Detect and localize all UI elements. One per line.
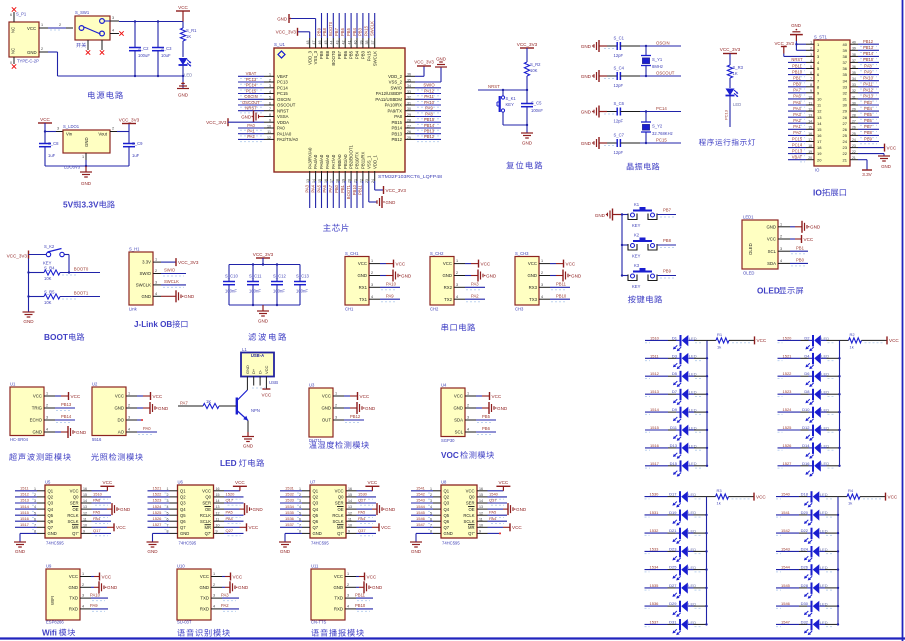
svg-text:SER: SER — [335, 501, 344, 506]
svg-text:1545: 1545 — [781, 583, 791, 588]
svg-text:1511: 1511 — [650, 353, 659, 358]
svg-text:VDDA: VDDA — [277, 120, 289, 125]
svg-text:S_C3: S_C3 — [161, 46, 172, 51]
svg-text:GND: GND — [32, 430, 42, 435]
svg-text:VCC: VCC — [33, 394, 42, 399]
svg-text:PA9: PA9 — [90, 603, 98, 608]
svg-text:S_K1: S_K1 — [506, 96, 517, 101]
svg-text:AO: AO — [118, 430, 125, 435]
svg-text:PC13: PC13 — [724, 109, 729, 120]
svg-text:Q5: Q5 — [444, 513, 450, 518]
svg-text:2: 2 — [41, 47, 43, 51]
svg-text:1513: 1513 — [20, 498, 30, 503]
svg-text:GND: GND — [313, 531, 322, 536]
svg-text:PA1/A0: PA1/A0 — [277, 131, 292, 136]
svg-text:PB8: PB8 — [663, 238, 672, 243]
svg-text:VCC_3V3: VCC_3V3 — [414, 60, 434, 65]
svg-text:S_LDO1: S_LDO1 — [63, 124, 80, 129]
svg-text:1512: 1512 — [650, 371, 660, 376]
svg-text:GND: GND — [372, 585, 383, 590]
svg-text:NC: NC — [11, 27, 16, 33]
svg-text:GND: GND — [258, 319, 269, 324]
svg-text:PC13: PC13 — [792, 148, 803, 153]
svg-text:GND: GND — [571, 273, 582, 278]
svg-text:S_K2: S_K2 — [44, 244, 55, 249]
svg-text:USB-A: USB-A — [251, 353, 264, 358]
svg-text:1537: 1537 — [285, 522, 295, 527]
svg-text:D18: D18 — [801, 492, 809, 497]
svg-text:PB8: PB8 — [322, 27, 327, 36]
svg-text:100nF: 100nF — [249, 289, 261, 294]
svg-text:HC-SR04: HC-SR04 — [10, 437, 29, 442]
svg-text:VCC_3V3: VCC_3V3 — [774, 41, 794, 46]
svg-text:VCC: VCC — [757, 338, 767, 343]
svg-text:18: 18 — [817, 145, 822, 150]
svg-text:2: 2 — [541, 271, 543, 275]
svg-text:PA5: PA5 — [226, 510, 234, 515]
svg-text:OUT: OUT — [322, 418, 331, 423]
svg-text:PA10: PA10 — [863, 76, 873, 81]
svg-text:3: 3 — [780, 247, 782, 251]
svg-text:Q0: Q0 — [469, 495, 475, 500]
svg-text:1k: 1k — [850, 344, 854, 349]
svg-text:Q0: Q0 — [205, 495, 211, 500]
svg-text:Q5: Q5 — [180, 513, 186, 518]
svg-text:GND: GND — [581, 74, 592, 79]
svg-text:1545: 1545 — [416, 510, 426, 515]
svg-text:Q1: Q1 — [313, 489, 319, 494]
svg-text:VCC: VCC — [512, 525, 522, 530]
svg-text:MR: MR — [204, 525, 211, 530]
svg-text:PB5: PB5 — [346, 27, 351, 36]
svg-text:D6: D6 — [804, 371, 810, 376]
svg-text:PA2: PA2 — [247, 134, 255, 139]
svg-text:D11: D11 — [670, 425, 678, 430]
svg-text:PC14: PC14 — [792, 142, 803, 147]
svg-text:16: 16 — [817, 133, 822, 138]
svg-text:U2: U2 — [92, 382, 98, 387]
svg-text:K3: K3 — [634, 263, 640, 268]
svg-text:VSS_1: VSS_1 — [366, 155, 371, 169]
svg-text:Q7': Q7' — [468, 531, 475, 536]
svg-text:VCC: VCC — [69, 574, 78, 579]
svg-text:1531: 1531 — [650, 510, 660, 515]
svg-text:PA9: PA9 — [386, 293, 394, 298]
svg-text:2: 2 — [347, 583, 349, 587]
svg-text:S_C8: S_C8 — [48, 141, 59, 146]
svg-text:VCC: VCC — [492, 394, 502, 399]
svg-text:GND: GND — [810, 225, 821, 230]
svg-text:VCC_3V3: VCC_3V3 — [386, 188, 407, 193]
svg-text:PB7: PB7 — [663, 208, 672, 213]
svg-text:PB7: PB7 — [864, 124, 872, 129]
svg-text:3: 3 — [128, 416, 130, 420]
svg-text:OE: OE — [468, 507, 474, 512]
svg-text:GND: GND — [444, 531, 453, 536]
svg-text:PA5: PA5 — [489, 510, 497, 515]
svg-text:1510: 1510 — [650, 335, 660, 340]
svg-text:PB11: PB11 — [358, 184, 363, 195]
svg-text:12pF: 12pF — [614, 150, 624, 155]
svg-text:PA5: PA5 — [93, 510, 101, 515]
svg-text:CH3: CH3 — [515, 307, 524, 312]
svg-text:VCC_3V3: VCC_3V3 — [276, 30, 297, 35]
svg-text:S_C2: S_C2 — [138, 46, 149, 51]
svg-text:1524: 1524 — [783, 407, 793, 412]
svg-text:PC15: PC15 — [792, 136, 803, 141]
svg-text:1K: 1K — [733, 71, 738, 76]
svg-text:PB4: PB4 — [352, 27, 357, 36]
svg-text:D9: D9 — [672, 407, 678, 412]
svg-text:PB0/A0: PB0/A0 — [337, 154, 342, 169]
svg-text:U11: U11 — [311, 564, 319, 569]
svg-text:VCC: VCC — [360, 394, 370, 399]
svg-text:12pF: 12pF — [614, 119, 624, 124]
svg-text:Q1: Q1 — [180, 489, 186, 494]
svg-text:10: 10 — [817, 97, 822, 102]
svg-text:PA6: PA6 — [322, 184, 327, 192]
svg-text:22: 22 — [843, 151, 848, 156]
svg-text:Q2: Q2 — [444, 495, 450, 500]
svg-text:2: 2 — [112, 127, 114, 131]
svg-text:PA3: PA3 — [793, 112, 801, 117]
svg-text:GND: GND — [486, 273, 497, 278]
svg-text:SWCLK: SWCLK — [370, 21, 375, 36]
svg-text:PB11: PB11 — [355, 592, 366, 597]
svg-text:PA5: PA5 — [358, 510, 366, 515]
svg-text:TX3: TX3 — [529, 297, 537, 302]
svg-text:S_C9: S_C9 — [132, 141, 143, 146]
svg-text:SER: SER — [466, 501, 475, 506]
svg-text:3: 3 — [456, 283, 458, 287]
svg-text:D3: D3 — [672, 353, 678, 358]
svg-text:2: 2 — [456, 271, 458, 275]
svg-text:26: 26 — [843, 127, 848, 132]
svg-text:Wifi: Wifi — [42, 629, 57, 638]
svg-text:1521: 1521 — [153, 486, 163, 491]
svg-text:WIFI: WIFI — [50, 596, 55, 605]
svg-text:PB6: PB6 — [343, 50, 348, 59]
svg-text:1521: 1521 — [783, 353, 793, 358]
svg-text:1: 1 — [456, 259, 458, 263]
svg-text:PA12: PA12 — [424, 88, 435, 93]
svg-text:VCC: VCC — [115, 394, 124, 399]
svg-text:1: 1 — [128, 392, 130, 396]
svg-text:Q4: Q4 — [444, 507, 450, 512]
svg-text:1k: 1k — [848, 501, 852, 506]
svg-text:37: 37 — [843, 60, 848, 65]
svg-text:25: 25 — [843, 133, 848, 138]
svg-text:PB4: PB4 — [355, 50, 360, 59]
svg-text:VCC_3V3: VCC_3V3 — [253, 252, 274, 257]
svg-text:OLED: OLED — [757, 287, 780, 296]
svg-text:1: 1 — [371, 259, 373, 263]
svg-text:1547: 1547 — [781, 619, 791, 624]
svg-text:GND: GND — [199, 585, 209, 590]
svg-text:B: B — [166, 320, 172, 329]
svg-text:PA11: PA11 — [863, 82, 873, 87]
svg-text:LDO3V3: LDO3V3 — [64, 165, 81, 170]
svg-text:1K: 1K — [186, 34, 191, 39]
svg-text:PB1/A0: PB1/A0 — [343, 154, 348, 169]
svg-text:GND: GND — [15, 549, 26, 554]
svg-text:Q37: Q37 — [489, 498, 497, 503]
svg-text:OSCOUT: OSCOUT — [656, 71, 675, 76]
svg-text:GND: GND — [357, 273, 367, 278]
svg-text:30: 30 — [843, 103, 848, 108]
svg-text:38: 38 — [843, 54, 848, 59]
svg-text:1543: 1543 — [781, 546, 791, 551]
svg-text:VCC: VCC — [27, 26, 36, 31]
svg-text:PB7: PB7 — [334, 27, 339, 36]
svg-text:Q2: Q2 — [180, 495, 186, 500]
svg-text:S_C11: S_C11 — [249, 274, 262, 279]
svg-text:1523: 1523 — [153, 498, 163, 503]
svg-text:1524: 1524 — [153, 504, 163, 509]
svg-text:1546: 1546 — [781, 601, 791, 606]
svg-text:PA7/A0: PA7/A0 — [331, 154, 336, 169]
svg-text:1: 1 — [213, 572, 215, 576]
svg-text:PA10/RX: PA10/RX — [385, 103, 402, 108]
svg-text:3: 3 — [213, 594, 215, 598]
svg-text:GND: GND — [158, 406, 169, 411]
svg-text:1531: 1531 — [285, 486, 295, 491]
svg-text:PB13: PB13 — [61, 402, 72, 407]
svg-text:D15: D15 — [670, 461, 678, 466]
svg-text:1542: 1542 — [781, 528, 791, 533]
svg-text:1520: 1520 — [783, 335, 793, 340]
svg-text:1520: 1520 — [226, 491, 236, 496]
svg-text:PB1: PB1 — [793, 76, 801, 81]
svg-text:4: 4 — [112, 29, 114, 33]
svg-text:S_CH2: S_CH2 — [430, 251, 444, 256]
svg-text:TX1: TX1 — [359, 297, 367, 302]
svg-text:PB13: PB13 — [391, 131, 402, 136]
svg-text:GND: GND — [516, 507, 527, 512]
svg-text:1: 1 — [780, 222, 782, 226]
svg-text:1546: 1546 — [416, 516, 426, 521]
svg-text:OE: OE — [72, 507, 78, 512]
svg-text:IO: IO — [815, 168, 820, 173]
svg-text:D27: D27 — [669, 583, 677, 588]
svg-text:KEY: KEY — [632, 284, 641, 289]
svg-text:U1: U1 — [10, 382, 16, 387]
svg-text:PA15: PA15 — [366, 50, 371, 61]
svg-text:1541: 1541 — [416, 486, 426, 491]
svg-text:PA9/TX: PA9/TX — [388, 108, 403, 113]
svg-text:PB5: PB5 — [482, 414, 491, 419]
svg-text:VOC: VOC — [441, 451, 459, 460]
svg-text:Q3: Q3 — [48, 501, 54, 506]
svg-text:27: 27 — [843, 121, 848, 126]
svg-text:Q17: Q17 — [226, 498, 234, 503]
svg-text:BOOT0: BOOT0 — [331, 50, 336, 65]
svg-text:3: 3 — [347, 594, 349, 598]
svg-text:24: 24 — [843, 139, 848, 144]
svg-text:1510: 1510 — [93, 491, 103, 496]
svg-text:D8: D8 — [804, 389, 810, 394]
svg-text:GND: GND — [581, 44, 592, 49]
svg-text:K1: K1 — [634, 202, 640, 207]
svg-text:PA0: PA0 — [143, 426, 151, 431]
svg-text:PA10: PA10 — [386, 282, 397, 287]
svg-text:1541: 1541 — [781, 510, 791, 515]
svg-text:GND: GND — [436, 57, 446, 62]
svg-text:1526: 1526 — [783, 443, 793, 448]
svg-text:PB9: PB9 — [864, 136, 872, 141]
svg-text:1523: 1523 — [783, 389, 793, 394]
svg-text:PB12: PB12 — [863, 39, 874, 44]
svg-text:1: 1 — [155, 258, 157, 262]
svg-text:Q7: Q7 — [180, 525, 186, 530]
svg-text:VCC: VCC — [466, 489, 475, 494]
svg-text:3: 3 — [46, 416, 48, 420]
svg-text:Q1: Q1 — [48, 489, 54, 494]
svg-text:PC14: PC14 — [277, 85, 288, 90]
svg-text:4: 4 — [82, 605, 84, 609]
svg-text:Q7: Q7 — [444, 525, 450, 530]
svg-text:VCC: VCC — [889, 338, 899, 343]
svg-text:PA4: PA4 — [93, 516, 101, 521]
svg-text:VCC: VCC — [322, 394, 331, 399]
svg-text:S_ST1: S_ST1 — [814, 35, 827, 40]
svg-text:33: 33 — [843, 84, 848, 89]
svg-text:D19: D19 — [669, 510, 677, 515]
svg-text:GND: GND — [238, 585, 249, 590]
svg-text:PB9: PB9 — [319, 50, 324, 59]
svg-text:D14: D14 — [802, 443, 810, 448]
svg-text:D22: D22 — [801, 528, 809, 533]
svg-text:36: 36 — [843, 66, 848, 71]
svg-text:OLED: OLED — [743, 271, 754, 276]
svg-text:1: 1 — [82, 155, 84, 159]
svg-text:SWIO: SWIO — [164, 268, 176, 273]
svg-text:PB11: PB11 — [792, 63, 802, 68]
svg-text:GND: GND — [766, 224, 776, 229]
svg-text:VCC: VCC — [888, 494, 898, 499]
svg-text:Q1: Q1 — [444, 489, 450, 494]
svg-text:PA6: PA6 — [93, 498, 101, 503]
svg-text:PB8: PB8 — [864, 130, 872, 135]
svg-text:S_CH3: S_CH3 — [515, 251, 529, 256]
svg-text:1: 1 — [541, 259, 543, 263]
svg-text:PA4: PA4 — [793, 106, 801, 111]
svg-text:12pF: 12pF — [614, 83, 624, 88]
svg-text:2: 2 — [467, 404, 469, 408]
svg-text:4: 4 — [46, 428, 48, 432]
svg-text:BOOT1: BOOT1 — [74, 291, 89, 296]
svg-text:19: 19 — [817, 151, 822, 156]
svg-text:VCC_3V3: VCC_3V3 — [178, 260, 199, 265]
svg-text:1516: 1516 — [20, 516, 30, 521]
svg-text:PA15: PA15 — [364, 25, 369, 36]
svg-text:PB5: PB5 — [864, 112, 872, 117]
svg-text:GND: GND — [581, 109, 592, 114]
svg-text:1522: 1522 — [783, 371, 793, 376]
svg-text:VCC: VCC — [335, 489, 344, 494]
svg-text:R3: R3 — [717, 488, 723, 493]
svg-text:VCC: VCC — [70, 489, 79, 494]
svg-text:2: 2 — [82, 583, 84, 587]
svg-text:PB10: PB10 — [352, 184, 357, 195]
svg-text:3: 3 — [155, 281, 157, 285]
svg-text:100uF: 100uF — [138, 53, 150, 58]
svg-text:15: 15 — [817, 127, 822, 132]
svg-text:2: 2 — [213, 583, 215, 587]
svg-text:PA11/USBDM: PA11/USBDM — [375, 97, 402, 102]
svg-text:3.3V: 3.3V — [862, 172, 872, 177]
svg-text:Q17: Q17 — [93, 528, 101, 533]
svg-text:Q6: Q6 — [180, 519, 186, 524]
svg-text:T: T — [63, 332, 68, 342]
svg-text:1542: 1542 — [416, 492, 426, 497]
svg-text:Q7': Q7' — [337, 531, 344, 536]
svg-text:MR: MR — [72, 525, 79, 530]
svg-text:4: 4 — [467, 428, 469, 432]
svg-text:ESP8266: ESP8266 — [46, 619, 64, 624]
svg-text:VCC: VCC — [71, 394, 81, 399]
svg-text:100nF: 100nF — [225, 289, 237, 294]
svg-text:KEY: KEY — [506, 102, 515, 107]
svg-text:PC15: PC15 — [246, 88, 257, 93]
svg-text:Q27: Q27 — [358, 498, 366, 503]
svg-text:1532: 1532 — [285, 492, 295, 497]
svg-text:1522: 1522 — [153, 492, 163, 497]
svg-text:VCC: VCC — [116, 525, 126, 530]
svg-text:Q7': Q7' — [72, 531, 79, 536]
svg-text:PB10: PB10 — [355, 603, 366, 608]
svg-text:PB9: PB9 — [316, 27, 321, 36]
svg-text:PB9: PB9 — [663, 269, 672, 274]
svg-text:PB14: PB14 — [424, 123, 435, 128]
svg-text:PB13: PB13 — [863, 45, 874, 50]
svg-text:VCC: VCC — [264, 365, 269, 374]
svg-text:Q4: Q4 — [313, 507, 319, 512]
svg-text:S_C10: S_C10 — [225, 274, 238, 279]
svg-text:PA4/A0: PA4/A0 — [313, 154, 318, 169]
svg-text:RX3: RX3 — [529, 285, 538, 290]
svg-text:D12: D12 — [802, 425, 810, 430]
svg-text:32.768KHz: 32.768KHz — [652, 131, 673, 136]
svg-text:SWCLK: SWCLK — [136, 283, 151, 288]
svg-text:PA7: PA7 — [328, 184, 333, 192]
svg-text:40: 40 — [843, 42, 848, 47]
svg-text:SER: SER — [202, 501, 211, 506]
svg-text:GND: GND — [527, 273, 537, 278]
svg-text:NPN: NPN — [251, 408, 260, 413]
svg-text:29: 29 — [843, 109, 848, 114]
svg-text:RCLK: RCLK — [463, 513, 474, 518]
svg-text:VCC: VCC — [249, 525, 259, 530]
svg-text:PB15: PB15 — [424, 117, 435, 122]
svg-text:1540: 1540 — [781, 492, 791, 497]
svg-text:GND: GND — [76, 430, 87, 435]
svg-text:NRST: NRST — [245, 106, 257, 111]
svg-text:Q6: Q6 — [313, 519, 319, 524]
svg-text:PB13: PB13 — [424, 129, 435, 134]
svg-text:PA0: PA0 — [277, 126, 285, 131]
svg-text:100nF: 100nF — [296, 289, 308, 294]
svg-text:VSSA: VSSA — [277, 114, 289, 119]
svg-text:3: 3 — [371, 283, 373, 287]
svg-text:Q4: Q4 — [180, 507, 186, 512]
svg-text:PB1: PB1 — [340, 184, 345, 193]
svg-text:PB0: PB0 — [793, 82, 801, 87]
svg-text:LED: LED — [184, 73, 192, 78]
svg-text:1517: 1517 — [650, 461, 660, 466]
svg-text:PA8: PA8 — [425, 111, 433, 116]
svg-text:PA3: PA3 — [305, 184, 310, 192]
